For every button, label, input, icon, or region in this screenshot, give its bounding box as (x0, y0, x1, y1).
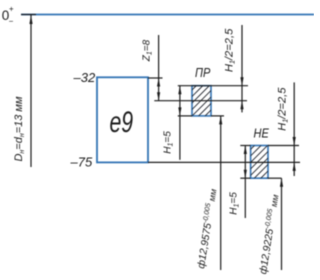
zero line black tick (21, 14, 36, 16)
svg-text:ф12,9225-0,005 мм: ф12,9225-0,005 мм (257, 194, 281, 275)
arrow up at zero line (29, 15, 32, 24)
svg-text:−: − (9, 17, 14, 26)
svg-text:НЕ: НЕ (254, 127, 269, 141)
tick e9 top extension (148, 77, 163, 79)
svg-text:H1=5: H1=5 (229, 192, 241, 215)
line dmin extension (148, 161, 300, 163)
dimension H1/2 (NE) (293, 82, 295, 176)
svg-text:Z1=8: Z1=8 (142, 39, 154, 62)
NE top ticks (240, 145, 250, 147)
svg-text:Dн=dн=13 мм: Dн=dн=13 мм (13, 96, 26, 161)
dimension H1 (PR) (179, 86, 181, 160)
svg-text:+: + (9, 4, 14, 13)
rectangle e9 tolerance zone (97, 77, 148, 162)
dimension line Dn (left) (30, 15, 32, 168)
PR center line (154, 100, 247, 102)
svg-text:ф12,9575-0,005 мм: ф12,9575-0,005 мм (195, 188, 219, 269)
svg-text:H1=5: H1=5 (163, 131, 175, 154)
gauge PR tolerance zone (176, 66, 216, 152)
PR bottom ticks (178, 115, 192, 117)
svg-text:e9: e9 (109, 107, 133, 139)
zero line (21, 14, 314, 16)
dimension H1/2 (PR) (241, 25, 243, 112)
svg-text:ПР: ПР (195, 66, 210, 80)
dimension H1 (NE) (244, 146, 246, 219)
dimension Z1 (158, 35, 160, 101)
dimension line d NE (phi 12,9225) (281, 178, 283, 270)
PR top line (178, 85, 248, 87)
label 0 with plus minus (2, 4, 14, 26)
gauge NE tolerance zone (236, 124, 276, 210)
svg-text:H1/2=2,5: H1/2=2,5 (223, 28, 236, 72)
dimension line d PR (phi 12,9575) (220, 116, 222, 270)
svg-text:–32: –32 (73, 70, 96, 85)
svg-text:H1/2=2,5: H1/2=2,5 (276, 87, 289, 131)
NE bottom ticks (240, 177, 250, 179)
svg-text:–75: –75 (70, 154, 93, 169)
